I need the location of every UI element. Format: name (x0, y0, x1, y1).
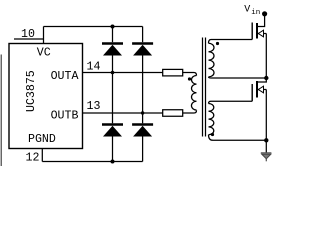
wire sec-lower bottom to ground rail (213, 139, 266, 141)
wire column1 OUTA to D3 (112, 73, 114, 124)
node secondary upper polarity dot (216, 42, 219, 45)
wire pin12 PGND lead (41, 149, 43, 162)
transistor Q2 (256, 81, 258, 98)
svg-text:14: 14 (87, 61, 101, 74)
diode D2 (132, 42, 153, 45)
node OUTB junction (141, 111, 144, 114)
node OUTA junction (111, 71, 115, 75)
node top rail junction (111, 25, 115, 29)
wire column1 D3 to bottom rail (112, 137, 114, 162)
transformer T1 secondary upper winding (209, 40, 212, 44)
svg-text:12: 12 (26, 152, 40, 165)
wire pin10 lead (43, 27, 45, 44)
transformer T1 primary winding (191, 76, 196, 111)
svg-text:in: in (251, 9, 260, 17)
node midpoint junction (264, 76, 268, 80)
wire bottom rail (42, 161, 142, 163)
diode D1 (102, 42, 123, 45)
node ground junction (264, 138, 268, 142)
wire sec-upper top to Q1 gate (211, 39, 252, 41)
wire Q2 source down (265, 90, 267, 141)
svg-text:OUTA: OUTA (51, 70, 79, 83)
wire sec-lower top to Q2 gate (211, 100, 252, 102)
wire column1 upper (112, 27, 114, 43)
wire sec-upper bottom to midpoint (211, 77, 266, 79)
resistor R2 (163, 110, 183, 117)
node Vin terminal (262, 11, 267, 16)
diode D3 (102, 123, 123, 126)
svg-text:V: V (244, 5, 250, 16)
wire midpoint to Q2 drain (257, 78, 266, 82)
wire column1 D1 to OUTA (112, 56, 114, 73)
node primary polarity dot (188, 77, 191, 80)
svg-text:OUTB: OUTB (51, 110, 79, 123)
wire Q1 source to midpoint (265, 34, 267, 79)
svg-text:VC: VC (37, 47, 51, 60)
wire column2 D2 to OUTB (142, 56, 144, 114)
wire to ground (265, 140, 267, 153)
wire OUTA (83, 72, 163, 74)
transformer T1 secondary lower winding (209, 101, 212, 103)
node bottom rail junction (111, 160, 115, 164)
wire column2 upper (142, 27, 144, 43)
transformer T1 core (202, 38, 204, 137)
IC U1 UC3875 box (9, 44, 83, 149)
svg-text:10: 10 (21, 28, 35, 41)
diode D4 (132, 123, 153, 126)
svg-text:UC3875: UC3875 (25, 70, 38, 112)
wire R1 to T1 primary (183, 73, 197, 76)
wire top rail VC (44, 26, 143, 28)
wire R2 to T1 primary (183, 110, 197, 113)
wire column2 OUTB to D4 (142, 113, 144, 123)
transistor Q1 (256, 23, 258, 39)
node secondary lower polarity dot (211, 133, 214, 136)
svg-text:13: 13 (87, 100, 101, 113)
resistor R1 (163, 69, 183, 76)
wire column2 D4 to bottom rail (142, 137, 144, 162)
ground (261, 152, 272, 154)
wire Vin to Q1 drain (257, 14, 265, 27)
wire pin10 underline (14, 38, 44, 40)
wire OUTB (83, 112, 163, 114)
svg-text:PGND: PGND (28, 133, 56, 146)
